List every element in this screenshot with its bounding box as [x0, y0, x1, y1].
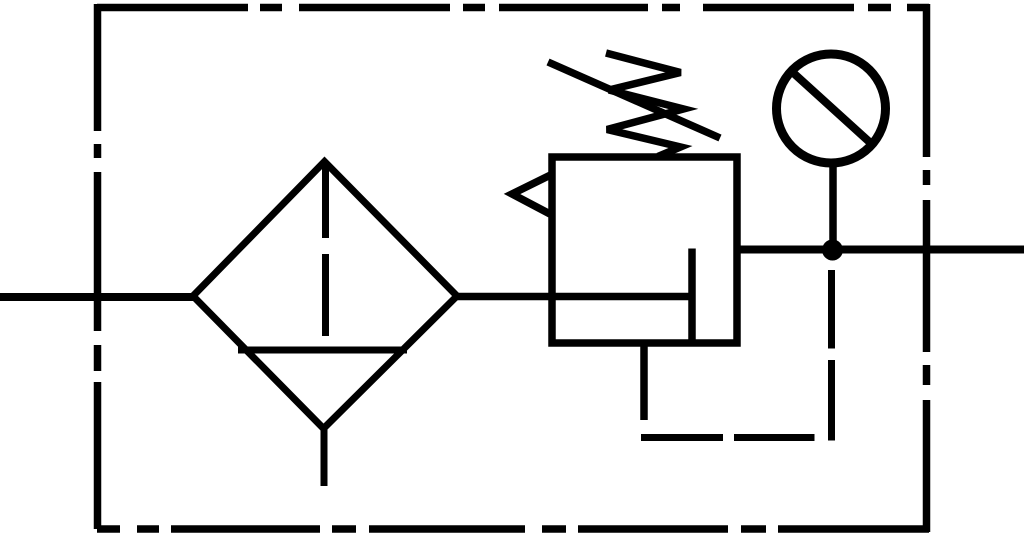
wire: inlet line (left edge to filter) [0, 293, 196, 301]
assembly enclosure frame (dash-dot), bottom side [97, 525, 929, 533]
regulator R: vent arrowhead (left) [512, 175, 551, 214]
filter F: condensate drain stem [321, 427, 328, 486]
pilot line: dashed vertical run up to junction [828, 270, 835, 441]
filter F: centre element line (dashed) [322, 164, 329, 336]
filter F: diamond body [193, 162, 457, 429]
pressure gauge G: dial circle [777, 54, 886, 163]
regulator R: adjustment line (diagonal through spring) [548, 62, 720, 138]
pilot line: dashed horizontal run [641, 434, 815, 441]
filter F: separator chord [238, 347, 407, 354]
assembly enclosure frame (dash-dot), right side [923, 4, 931, 532]
pilot line: solid drop from regulator bottom port [640, 343, 648, 420]
wire: filter outlet to regulator (continues inside body) [455, 293, 692, 301]
pressure gauge G: needle diagonal [789, 69, 875, 147]
regulator R: setting spring (zigzag) [606, 53, 684, 157]
regulator R: internal passage line [688, 249, 696, 344]
assembly enclosure frame (dash-dot), top side [97, 4, 929, 12]
wire: outlet line (regulator to right edge) [737, 246, 1024, 254]
assembly enclosure frame (dash-dot), left side [94, 4, 102, 529]
regulator R: body [552, 157, 737, 343]
node: junction dot (gauge tap on outlet line) [822, 240, 843, 261]
wire: gauge stem [829, 163, 837, 250]
